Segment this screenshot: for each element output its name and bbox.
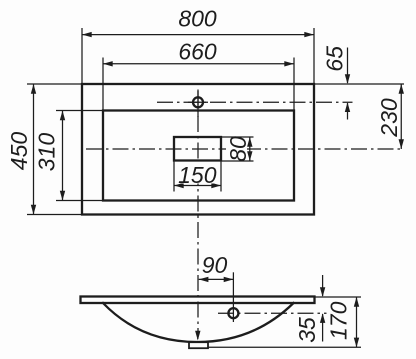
dimension 90 line [199,278,234,280]
dimension 660 arrow left [103,61,113,66]
faucet hole solid horizontal crosshair [188,101,208,103]
dimension 90 arrow right [224,277,234,282]
dimension 65 line lower segment [347,103,349,120]
overflow hole vertical extension line (90 dim right extension) [232,272,234,322]
centerline end arrow at bowl bottom [195,331,200,341]
dimension 150 line [174,185,221,187]
svg-text:35: 35 [294,317,320,343]
dimension 800 arrow left [82,32,92,37]
dimension 310 arrow bottom [60,191,65,201]
mask behind 80 label [226,139,247,160]
svg-text:230: 230 [376,98,402,138]
dimension 170 arrow bottom [354,338,359,348]
dimension 35 arrow down at rim top [320,287,325,297]
dimension 310 arrow top [60,111,65,121]
extension line right of bowl bottom for 170 [208,346,361,348]
dimension 310 extension line top [56,110,102,112]
dimension 800 extension line right [313,28,315,83]
svg-text:80: 80 [225,136,251,162]
dimension 150 arrow left [174,183,184,188]
vertical centerline solid crosshair segment at faucet hole [197,91,199,117]
dimension 35 line upper segment [322,275,324,296]
basin outer rectangle 800x450 top view [82,84,314,215]
dimension 170 line [356,297,358,347]
drain boss rectangle front view [189,342,208,348]
dimension 230 arrow bottom [399,139,404,149]
svg-text:170: 170 [326,301,352,340]
dimension 35 line lower segment [322,314,324,342]
dimension 800 extension line left [81,28,83,83]
overflow hole circle front view [228,308,238,318]
svg-text:65: 65 [322,46,348,72]
svg-text:150: 150 [178,162,217,188]
overflow hole horizontal centerline [218,312,327,314]
dimension 80 arrow bottom [247,151,252,161]
extension line right of top edge for 65 and 230 [315,83,404,85]
drain cutout rectangle top view [174,137,221,161]
dimension 450 arrow top [31,84,36,94]
dimension 90 arrow left [199,277,209,282]
dimension 800 line [82,34,314,36]
dimension 660 extension line left [102,58,104,110]
svg-text:660: 660 [178,39,217,65]
dimension 310 line [62,111,64,201]
dimension 230 arrow top [399,84,404,94]
vertical centerline [197,90,199,332]
horizontal centerline through faucet hole [157,101,353,103]
dimension 230 line [400,84,402,149]
dimension 150 extension line right [220,161,222,192]
dimension 35 arrow up at hole centerline [320,313,325,323]
svg-text:800: 800 [178,6,217,32]
dimension 310 extension line bottom [56,200,102,202]
dimension 660 line [103,63,294,65]
dimension 80 extension line bottom [222,160,254,162]
dimension 800 arrow right [304,32,314,37]
svg-text:450: 450 [6,132,32,171]
basin inner bowl rectangle 660x310 [103,111,294,201]
dimension 450 extension line bottom [27,214,81,216]
faucet hole circle top view [193,97,203,107]
dimension 65 arrow up at faucet centerline [345,102,350,112]
dimension 660 arrow right [284,61,294,66]
dimension 450 extension line top [27,83,81,85]
dimension 150 extension line left [173,161,175,192]
bowl profile curve front view [103,303,294,342]
dimension 65 line upper segment [347,48,349,84]
dimension 660 extension line right [293,58,295,110]
dimension 450 arrow bottom [31,205,36,215]
dimension 80 line [249,137,251,161]
horizontal centerline through drain [86,148,404,150]
dimension 150 arrow right [211,183,221,188]
dimension 450 line [33,84,35,215]
mask behind 150 label [176,163,219,184]
rim slab front view [81,297,315,304]
dimension 65 arrow down at top edge [345,74,350,84]
extension line right of rim top for 35 and 170 [315,296,361,298]
svg-text:90: 90 [202,252,228,278]
dimension 170 arrow top [354,297,359,307]
dimension 80 extension line top [222,136,254,138]
svg-text:310: 310 [34,133,60,172]
dimension 80 arrow top [247,137,252,147]
